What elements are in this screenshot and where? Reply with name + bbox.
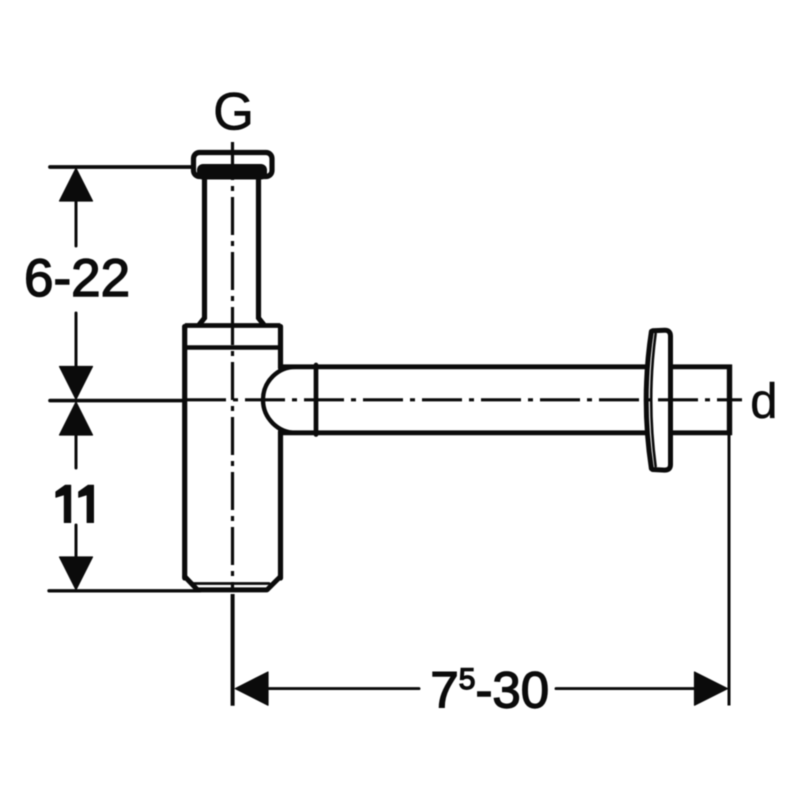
extension line mid (pipe axis)	[50, 399, 183, 403]
outlet pipe top line (left of flange)	[281, 364, 645, 369]
vertical centerline	[231, 142, 234, 590]
wall flange outline	[646, 330, 670, 470]
pipe end cap	[727, 365, 732, 436]
trap body bottom with chamfers	[185, 577, 281, 590]
trap body top edge	[185, 326, 281, 331]
arrowhead 75-30 left	[235, 672, 268, 705]
extension line bottom (body underside)	[49, 589, 200, 592]
bottom extension line right (pipe end)	[728, 435, 731, 706]
dimension line 11 lower segment	[75, 525, 78, 556]
extension line top (G nut underside)	[50, 165, 192, 169]
inlet pipe right wall	[259, 179, 264, 324]
svg-text:75-30: 75-30	[430, 662, 549, 719]
bottom extension line left (trap axis)	[231, 594, 235, 706]
trap body inner bottom line	[193, 582, 269, 585]
wall flange inner curve	[651, 334, 655, 466]
inlet seal bar	[197, 164, 267, 180]
dimension line 75-30 right segment	[556, 687, 696, 690]
dimension line 6-22 upper segment	[75, 172, 78, 246]
collar line	[187, 345, 279, 349]
dimension line 11 upper segment	[75, 433, 78, 468]
inlet nut (top cap)	[194, 153, 273, 177]
horizontal centerline	[186, 398, 742, 401]
svg-text:d: d	[750, 375, 777, 429]
trap body right wall upper	[278, 327, 283, 369]
outlet pipe bottom line (left of flange)	[281, 430, 645, 435]
svg-text:G: G	[213, 82, 254, 141]
arrowhead 75-30 right	[695, 672, 728, 705]
arrowhead 6-22 down	[60, 367, 93, 400]
arrowhead 11 up	[60, 402, 93, 435]
outlet pipe top line (right of flange)	[673, 364, 732, 369]
svg-text:6-22: 6-22	[24, 249, 130, 308]
outlet pipe bottom line (right of flange)	[673, 430, 732, 435]
dimension line 6-22 lower segment	[75, 313, 78, 396]
trap body left wall	[182, 327, 187, 579]
arrowhead 11 down	[60, 557, 93, 590]
trap body right wall lower	[278, 432, 283, 579]
label 11	[56, 485, 94, 522]
dimension line 75-30 left segment	[266, 687, 419, 690]
inlet pipe left wall	[200, 179, 205, 324]
pipe joint line	[314, 365, 319, 435]
inlet bulge semicircle	[263, 367, 296, 433]
arrowhead 6-22 up	[60, 168, 93, 201]
